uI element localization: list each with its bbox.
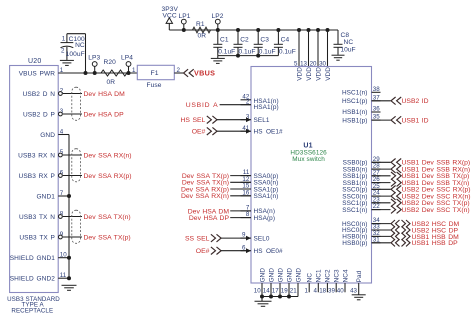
svg-text:Dev SSA TX(n): Dev SSA TX(n) xyxy=(84,214,131,221)
svg-text:USB1 ID: USB1 ID xyxy=(402,118,429,125)
svg-text:Fuse: Fuse xyxy=(147,82,162,89)
svg-text:Dev SSA TX(p): Dev SSA TX(p) xyxy=(84,234,131,241)
svg-text:GND: GND xyxy=(277,268,284,283)
svg-text:VDD: VDD xyxy=(325,67,332,81)
svg-text:Dev SSA RX(n): Dev SSA RX(n) xyxy=(84,152,132,159)
svg-text:4: 4 xyxy=(314,287,318,294)
svg-text:SS SEL: SS SEL xyxy=(185,236,210,243)
svg-text:GND: GND xyxy=(40,132,55,139)
svg-text:NC: NC xyxy=(344,39,354,46)
svg-text:0.1uF: 0.1uF xyxy=(218,48,235,55)
svg-text:21: 21 xyxy=(290,287,297,294)
svg-text:0R: 0R xyxy=(107,79,116,86)
svg-text:10uF: 10uF xyxy=(341,46,356,53)
svg-text:43: 43 xyxy=(350,287,357,294)
svg-text:0.1uF: 0.1uF xyxy=(239,48,256,55)
svg-text:10: 10 xyxy=(254,287,261,294)
svg-text:OE#: OE# xyxy=(192,129,206,136)
svg-text:LP1: LP1 xyxy=(179,13,191,20)
svg-text:HS SEL: HS SEL xyxy=(181,117,206,124)
svg-text:1: 1 xyxy=(304,287,308,294)
svg-text:17: 17 xyxy=(272,287,279,294)
svg-text:GND: GND xyxy=(286,268,293,283)
svg-text:2: 2 xyxy=(177,67,181,74)
svg-text:USB3 TX P: USB3 TX P xyxy=(19,234,55,241)
svg-text:VBUS: VBUS xyxy=(194,69,215,78)
svg-text:LP2: LP2 xyxy=(212,13,224,20)
svg-text:NC1: NC1 xyxy=(316,269,323,282)
svg-text:Dev HSA DP: Dev HSA DP xyxy=(189,215,230,222)
svg-text:LP4: LP4 xyxy=(121,55,133,62)
svg-text:14: 14 xyxy=(263,287,270,294)
svg-text:2: 2 xyxy=(61,48,65,55)
svg-text:HSC1(p): HSC1(p) xyxy=(342,98,368,105)
svg-text:0.1uF: 0.1uF xyxy=(259,48,276,55)
svg-text:NC2: NC2 xyxy=(325,269,332,282)
svg-text:Pad: Pad xyxy=(356,270,363,282)
svg-text:USB3 RX N: USB3 RX N xyxy=(18,152,55,159)
svg-text:38: 38 xyxy=(373,86,380,93)
svg-text:Dev SSA RX(p): Dev SSA RX(p) xyxy=(84,173,132,180)
svg-text:USB3 RX P: USB3 RX P xyxy=(19,173,55,180)
svg-text:GND: GND xyxy=(268,268,275,283)
svg-text:Dev HSA DM: Dev HSA DM xyxy=(84,91,126,98)
svg-text:HS OE1#: HS OE1# xyxy=(254,129,284,136)
svg-text:36: 36 xyxy=(373,106,380,113)
svg-text:NC: NC xyxy=(307,273,314,283)
svg-text:C1: C1 xyxy=(220,36,229,43)
svg-text:RECEPTACLE: RECEPTACLE xyxy=(11,307,53,314)
svg-text:C8: C8 xyxy=(341,32,350,39)
svg-text:VCC: VCC xyxy=(163,12,177,19)
svg-text:VBUS PWR: VBUS PWR xyxy=(19,70,55,77)
svg-text:VDD: VDD xyxy=(296,67,303,81)
svg-text:HSB1(n): HSB1(n) xyxy=(342,109,367,116)
svg-text:0R: 0R xyxy=(198,33,207,40)
svg-text:C3: C3 xyxy=(260,36,269,43)
svg-text:LP3: LP3 xyxy=(88,55,100,62)
svg-text:USB2 D P: USB2 D P xyxy=(23,111,55,118)
svg-text:1: 1 xyxy=(132,67,136,74)
svg-text:USB2 ID: USB2 ID xyxy=(402,98,429,105)
svg-text:F1: F1 xyxy=(151,70,159,77)
svg-text:VDD: VDD xyxy=(306,67,313,81)
svg-text:NC: NC xyxy=(75,42,85,49)
svg-text:Dev HSA DP: Dev HSA DP xyxy=(84,111,125,118)
svg-text:40: 40 xyxy=(337,287,344,294)
svg-text:USB3 TX N: USB3 TX N xyxy=(19,214,55,221)
svg-text:VDD: VDD xyxy=(315,67,322,81)
svg-text:SSA1(n): SSA1(n) xyxy=(254,193,279,200)
svg-text:SSC1(n): SSC1(n) xyxy=(342,207,367,214)
svg-text:R1: R1 xyxy=(196,21,205,28)
svg-text:19: 19 xyxy=(281,287,288,294)
svg-text:C2: C2 xyxy=(240,36,249,43)
svg-text:HSB0(p): HSB0(p) xyxy=(342,240,367,247)
svg-text:NC4: NC4 xyxy=(342,269,349,282)
svg-text:USB2 Dev SSC TX(n): USB2 Dev SSC TX(n) xyxy=(402,207,470,214)
svg-text:SHIELD GND1: SHIELD GND1 xyxy=(10,255,56,262)
svg-text:100uF: 100uF xyxy=(66,51,85,58)
svg-text:GND: GND xyxy=(259,268,266,283)
svg-text:OE#: OE# xyxy=(196,248,210,255)
svg-text:R20: R20 xyxy=(104,59,117,66)
svg-text:HSA1(p): HSA1(p) xyxy=(254,104,279,111)
svg-text:HSC1(n): HSC1(n) xyxy=(342,90,368,97)
svg-text:USB2 D N: USB2 D N xyxy=(23,91,56,98)
svg-text:0.1uF: 0.1uF xyxy=(279,48,296,55)
svg-text:HSB1(p): HSB1(p) xyxy=(342,117,367,124)
svg-text:18: 18 xyxy=(319,287,326,294)
svg-text:SHIELD GND2: SHIELD GND2 xyxy=(10,276,56,283)
svg-text:C4: C4 xyxy=(281,36,290,43)
svg-text:GND: GND xyxy=(295,268,302,283)
svg-text:GND1: GND1 xyxy=(37,193,56,200)
svg-text:SEL0: SEL0 xyxy=(254,235,270,242)
svg-text:NC3: NC3 xyxy=(334,269,341,282)
svg-text:1: 1 xyxy=(62,36,66,43)
svg-text:Dev SSA RX(n): Dev SSA RX(n) xyxy=(181,193,229,200)
svg-text:USBID A: USBID A xyxy=(186,102,219,109)
svg-text:HSA(p): HSA(p) xyxy=(254,215,276,222)
svg-text:U20: U20 xyxy=(28,58,41,65)
svg-text:USB1 HSB DP: USB1 HSB DP xyxy=(412,240,459,247)
svg-text:HS OE0#: HS OE0# xyxy=(254,248,284,255)
svg-text:Mux switch: Mux switch xyxy=(292,156,325,163)
svg-text:SEL1: SEL1 xyxy=(254,117,270,124)
svg-text:39: 39 xyxy=(328,287,335,294)
